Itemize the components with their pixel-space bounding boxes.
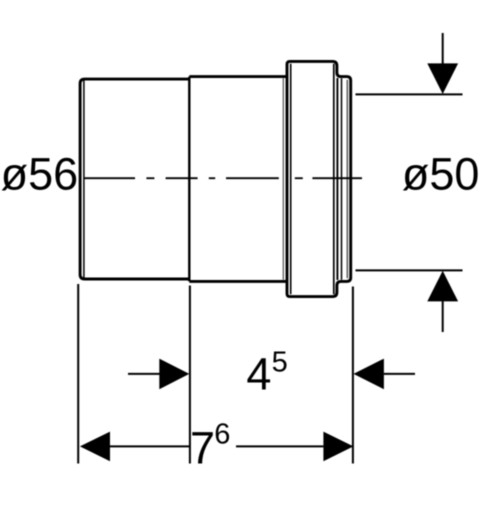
left pipe chamfer line — [83, 81, 85, 278]
o50 top arrowhead — [427, 63, 458, 94]
extension line left (x=78) — [77, 284, 79, 464]
section divider line — [188, 77, 190, 282]
collar left chamfer line — [290, 64, 292, 294]
svg-text:6: 6 — [214, 418, 230, 450]
centerline dot 3 — [295, 177, 303, 179]
76 right arrowhead — [323, 432, 353, 462]
centerline dash 2 — [166, 177, 198, 179]
centerline dash 3 — [226, 177, 279, 179]
svg-text:5: 5 — [272, 347, 288, 379]
o50 top extension line — [356, 93, 463, 95]
centerline dot 1 — [146, 177, 154, 179]
o50 bottom extension line — [356, 269, 463, 271]
middle pipe / collar joint line — [282, 78, 284, 280]
socket ring line 1 — [336, 78, 338, 280]
centerline dot 2 — [209, 177, 215, 179]
socket end chamfer line — [346, 80, 348, 278]
svg-text:4: 4 — [246, 349, 271, 400]
collar and socket end outline — [287, 61, 351, 296]
left pipe section outline (spigot end) — [80, 79, 189, 279]
middle pipe bottom edge — [189, 280, 287, 283]
o50 bottom arrow shaft — [442, 301, 444, 333]
socket ring line 2 — [341, 78, 343, 280]
extension line right (x=353) — [352, 287, 354, 464]
76 left arrowhead — [80, 432, 110, 462]
centerline dash 4 — [312, 177, 362, 179]
45 left arrow shaft — [128, 373, 160, 375]
45 right arrow shaft — [384, 373, 415, 375]
collar right face line — [333, 64, 335, 294]
o50 top arrow shaft — [442, 33, 444, 65]
middle pipe top edge — [189, 75, 287, 78]
svg-text:7: 7 — [190, 423, 215, 474]
svg-text:ø50: ø50 — [402, 149, 480, 200]
centerline dash 1 — [84, 177, 135, 179]
45 left arrowhead — [159, 359, 189, 390]
76 dimension line right part — [236, 445, 323, 447]
76 dimension line left part — [110, 445, 191, 447]
svg-text:ø56: ø56 — [1, 149, 79, 200]
extension line mid (x=190) — [189, 286, 191, 464]
o50 bottom arrowhead — [427, 271, 458, 302]
45 right arrowhead — [354, 359, 384, 390]
